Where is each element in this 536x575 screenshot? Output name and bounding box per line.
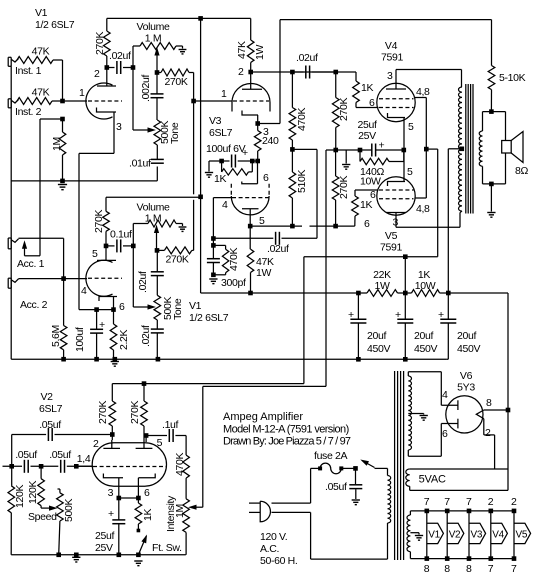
svg-text:270K: 270K (164, 76, 187, 88)
node divider mid (290, 147, 295, 152)
resistor 270K V1b plate (103, 197, 110, 246)
svg-text:10W: 10W (415, 280, 436, 292)
svg-text:1M: 1M (174, 504, 186, 518)
node speaker top (489, 109, 494, 114)
svg-text:Ft. Sw.: Ft. Sw. (152, 542, 182, 554)
svg-text:+: + (438, 309, 444, 321)
svg-text:3: 3 (108, 487, 114, 499)
svg-text:Tone: Tone (169, 122, 181, 144)
wire trem riser (202, 386, 204, 507)
node grid net top (211, 236, 216, 241)
svg-text:A.C.: A.C. (260, 543, 279, 555)
PT primary bottom lead (387, 523, 389, 559)
wire volume1 left (133, 46, 140, 130)
svg-text:V4: V4 (492, 530, 504, 541)
wire V4 grid (356, 107, 379, 109)
svg-text:4,8: 4,8 (416, 86, 430, 98)
capacitor .02uf ch2 (151, 250, 164, 295)
label 47K Inst.2 (32, 87, 50, 99)
OT secondary coil (479, 131, 482, 166)
svg-text:2.2K: 2.2K (118, 329, 130, 350)
svg-text:5: 5 (157, 437, 163, 449)
capacitor .01uf (151, 159, 164, 163)
svg-text:100uf 6V: 100uf 6V (206, 143, 246, 155)
V4 grid dashes (379, 99, 414, 108)
wire mix to V3a grid (194, 100, 232, 102)
label 1,4 V2 (77, 453, 91, 465)
V1a plate (97, 69, 116, 86)
resistor 2.2K (110, 310, 117, 360)
capacitor 25uf V2 (108, 498, 125, 555)
label 270K mix ch1 (164, 76, 187, 88)
wire osc row2 (3, 465, 93, 467)
svg-text:Acc. 2: Acc. 2 (20, 299, 48, 311)
label 470K trem (174, 453, 186, 476)
label Intensity (165, 495, 177, 532)
svg-text:6: 6 (144, 487, 150, 499)
node V3a cathode (255, 121, 260, 126)
svg-text:5.6M: 5.6M (50, 325, 62, 347)
node OT center tap (460, 147, 465, 152)
svg-text:fuse 2A: fuse 2A (314, 450, 348, 462)
capacitor .02uf V3a out (292, 66, 335, 79)
potentiometer 500K speed (57, 489, 64, 555)
resistor 1M grid leak (59, 119, 66, 181)
V5 plate (386, 213, 406, 228)
wire cath gnd stub (345, 150, 347, 164)
capacitor .02uf fb (213, 232, 279, 245)
label pin3 V2 (108, 487, 114, 499)
svg-text:120K: 120K (14, 485, 26, 508)
node row2 a (9, 464, 14, 469)
node V2 k2 (136, 496, 141, 501)
svg-text:7: 7 (488, 563, 494, 575)
V3b cathode (242, 161, 258, 184)
tube V6 5Y3 envelope (446, 396, 483, 433)
svg-text:8: 8 (444, 563, 450, 575)
node grid net 2 (211, 243, 216, 248)
label 25uf 25V out (357, 119, 376, 142)
svg-text:.1uf: .1uf (162, 419, 179, 431)
svg-text:450V: 450V (367, 343, 390, 355)
heater tag V3 (466, 496, 486, 575)
wire CT to B+ (448, 149, 462, 293)
wire 100uf to gnd (209, 161, 222, 172)
wire fuse to switch (341, 467, 355, 469)
label V4 (385, 40, 398, 52)
svg-text:270K: 270K (97, 401, 109, 424)
svg-text:1,4: 1,4 (77, 453, 91, 465)
label 140ohm (360, 166, 384, 178)
svg-text:500K: 500K (63, 499, 75, 522)
V3a grid dashes (233, 100, 269, 102)
PT HV winding (408, 376, 411, 450)
tube V1b envelope (86, 260, 113, 296)
ground below 1M (58, 185, 67, 190)
svg-text:510K: 510K (296, 170, 308, 193)
label pin6 V3b (263, 172, 269, 184)
resistor 470K divider (289, 72, 296, 149)
label pin3 V5 (393, 217, 399, 229)
label 4,8 V5 (416, 203, 430, 215)
label pin3 V4 (387, 70, 393, 82)
svg-text:1/2 6SL7: 1/2 6SL7 (35, 19, 75, 31)
label pin6 V4 (369, 97, 375, 109)
node gnd f1 (356, 357, 361, 362)
tube V3a envelope (232, 84, 270, 112)
wire grid net link (212, 239, 214, 246)
resistor 270K V4 (332, 72, 339, 150)
svg-text:Inst. 1: Inst. 1 (15, 65, 42, 77)
svg-text:1W: 1W (256, 267, 271, 279)
label pin2 V3a (238, 66, 244, 78)
svg-text:2: 2 (488, 496, 494, 508)
label 270K V1b (93, 210, 105, 233)
label .1uf (162, 419, 179, 431)
capacitor .002uf (151, 73, 164, 121)
svg-text:7: 7 (511, 563, 517, 575)
potentiometer 500K Tone ch1 (154, 120, 161, 145)
svg-text:Inst. 2: Inst. 2 (15, 106, 42, 118)
resistor 120K b (38, 466, 45, 508)
label pin3 V1a (116, 121, 122, 133)
svg-text:120K: 120K (27, 481, 39, 504)
node rail 25uf (117, 553, 122, 558)
resistor 510K divider (289, 149, 296, 226)
node cap out ch2 (131, 244, 136, 249)
node plate V1a (105, 65, 110, 70)
label pin3 V3a (263, 126, 269, 138)
wire Acc link tap (40, 119, 63, 256)
label 1M ch2 (145, 213, 161, 225)
capacitor .02uf tone2 (151, 320, 164, 359)
V2 cathodes (103, 474, 155, 499)
node cap out ch1 (131, 65, 136, 70)
node plate5 tap (144, 433, 149, 438)
resistor 22K 1W (367, 290, 398, 297)
svg-text:.01uf: .01uf (129, 158, 151, 170)
potentiometer Volume 1M ch1 (140, 43, 176, 50)
ground FtSw (134, 561, 142, 566)
wire V2 cath bus (119, 497, 139, 499)
node filter1 (356, 291, 361, 296)
resistor 270K V5 (332, 150, 339, 226)
V5 cathode (388, 150, 406, 186)
resistor 470K grid net (213, 245, 228, 274)
heater tag V5 (511, 496, 531, 575)
node gnd tone2 (156, 357, 161, 362)
svg-text:+: + (348, 309, 354, 321)
label 5Y3 (457, 382, 475, 394)
label 7591 V5 (380, 242, 402, 254)
svg-text:4,8: 4,8 (416, 203, 430, 215)
label pin6 V1b (119, 301, 125, 313)
PT HV top lead (408, 372, 441, 406)
svg-text:25V: 25V (95, 542, 113, 554)
svg-text:Ampeg Amplifier: Ampeg Amplifier (223, 411, 303, 423)
riser B+ right (507, 293, 509, 490)
svg-text:V5: V5 (385, 230, 398, 242)
capacitor .05uf b (61, 460, 65, 473)
label 1K V3 (214, 173, 226, 185)
node 1M top (60, 117, 65, 122)
label 1M ch1 (145, 33, 161, 45)
PT core (395, 371, 404, 560)
svg-text:1 M: 1 M (145, 213, 161, 225)
resistor 120K a (8, 466, 15, 555)
capacitor .05uf line (349, 468, 362, 499)
capacitor .1uf (146, 429, 186, 455)
wire divider tap (282, 149, 318, 238)
label 20uf 450V #3 (457, 330, 480, 355)
node V5 in (333, 224, 338, 229)
label fuse 2A (314, 450, 348, 462)
svg-text:.05uf: .05uf (39, 419, 61, 431)
svg-text:Model M-12-A (7591 version): Model M-12-A (7591 version) (223, 424, 349, 436)
label 120V (260, 531, 287, 543)
label 7591 V4 (381, 52, 403, 64)
label pin1 V1a (79, 87, 85, 99)
svg-text:V3: V3 (209, 115, 222, 127)
svg-text:+: + (99, 319, 105, 331)
potentiometer 1M intensity (183, 499, 190, 555)
svg-text:240: 240 (262, 135, 279, 147)
svg-text:.05uf: .05uf (15, 449, 37, 461)
V4 cathode (388, 113, 406, 150)
svg-text:270K: 270K (94, 32, 106, 55)
svg-text:1W: 1W (374, 280, 389, 292)
label pin5 V3b (259, 215, 265, 227)
label .002uf (140, 74, 152, 102)
PT primary winding (388, 476, 391, 524)
label 120K b (27, 481, 39, 504)
tube V5 envelope (377, 177, 415, 215)
svg-text:6: 6 (369, 97, 375, 109)
5VAC winding (406, 469, 410, 486)
svg-text:+: + (395, 309, 401, 321)
PT HV bottom lead (408, 424, 441, 457)
ground cath (342, 165, 350, 170)
label pin2 V1a (94, 68, 100, 80)
V1b grid dashes (88, 277, 122, 279)
label 20uf 450V #2 (414, 330, 437, 355)
node V3a plate (248, 70, 253, 75)
ground heater CT (415, 536, 423, 541)
capacitor 0.1uf ch2 (106, 239, 133, 252)
label Inst. 1 (15, 65, 42, 77)
svg-text:5Y3: 5Y3 (457, 382, 475, 394)
node switch contact (353, 466, 358, 471)
svg-text:5-10K: 5-10K (499, 72, 526, 84)
svg-text:6: 6 (119, 301, 125, 313)
capacitor .05uf top (12, 428, 113, 466)
label V3 (209, 115, 222, 127)
label 1W V3a (254, 45, 266, 60)
svg-text:V3: V3 (471, 530, 483, 541)
label 1K V4 grid (361, 82, 373, 94)
wire ground bus ch1 (11, 180, 157, 182)
label pin2 V6 (485, 427, 491, 439)
AC plug (249, 501, 270, 522)
Acc.1 switch arrow (22, 240, 40, 256)
node cath row b (358, 148, 363, 153)
label 4,8 V4 (416, 86, 430, 98)
wire V3b plate row (250, 225, 355, 227)
wire V3b grid (213, 198, 232, 239)
svg-text:100uf: 100uf (74, 327, 86, 352)
label 6SL7 V2 (39, 403, 63, 415)
node gnd 2.2K (113, 357, 118, 362)
wire Acc.2 jack to V1b grid (19, 278, 88, 280)
svg-text:1/2 6SL7: 1/2 6SL7 (189, 312, 229, 324)
wire screen B+ row (304, 256, 438, 258)
V2 plates (103, 440, 152, 448)
svg-text:V6: V6 (460, 370, 473, 382)
node wiper2 (155, 248, 160, 253)
label 500K speed (63, 499, 75, 522)
label .02uf ch2 (137, 271, 149, 293)
svg-text:7: 7 (424, 496, 430, 508)
wire feedback to cathode (258, 20, 280, 124)
label 10W 1K (415, 280, 436, 292)
node gnd f2 (403, 357, 408, 362)
label 500K Tone ch2 (162, 297, 184, 320)
wire cathode row (326, 149, 404, 151)
tube V2 envelope (92, 443, 166, 486)
svg-text:3: 3 (116, 121, 122, 133)
resistor 270K V1a plate (104, 18, 111, 67)
label Acc. 2 (20, 299, 48, 311)
V1a cathode (97, 108, 117, 154)
V5 grid dashes (379, 190, 414, 199)
label pin1 V3a (221, 88, 227, 100)
node wiper1 (155, 70, 160, 75)
svg-text:3: 3 (387, 70, 393, 82)
label pin6 V6 (442, 428, 448, 440)
node cath row a (333, 148, 338, 153)
input jack Acc.1 (8, 238, 18, 249)
node 100uf top (94, 307, 99, 312)
ground volume2 (179, 227, 187, 231)
label 8 ohm (515, 165, 528, 177)
svg-text:2: 2 (238, 66, 244, 78)
label 47K tail (256, 256, 274, 268)
node V2 k1 (117, 496, 122, 501)
svg-text:5: 5 (408, 121, 414, 133)
wire V5 plate to OT (396, 211, 462, 227)
svg-text:Speed: Speed (28, 511, 57, 523)
node rail gnd (74, 553, 79, 558)
wire B+ rail (201, 292, 508, 294)
ground grid net (209, 279, 217, 284)
label 270K mix ch2 (165, 254, 188, 266)
svg-text:.02uf: .02uf (137, 271, 149, 293)
svg-text:8: 8 (424, 563, 430, 575)
svg-text:8: 8 (466, 563, 472, 575)
svg-text:6: 6 (364, 218, 370, 230)
resistor 47K 1W V3a (247, 18, 254, 72)
svg-text:50-60 H.: 50-60 H. (260, 555, 297, 567)
V6 pin2 wire (484, 419, 495, 469)
V4 screen wire (415, 98, 427, 150)
potentiometer 500K Tone ch2 (154, 295, 161, 320)
heater tag V2 (444, 496, 464, 575)
resistor 47K Inst.1 (17, 57, 53, 64)
wire tone1 .01uf riser (156, 167, 158, 181)
svg-text:+: + (108, 508, 114, 520)
label pin5 V2 (157, 437, 163, 449)
svg-text:7591: 7591 (380, 242, 402, 254)
wire screen to V5 (415, 149, 427, 198)
input jack Inst.2 (8, 99, 18, 108)
power switch (360, 460, 387, 469)
input jack Acc.2 (8, 278, 18, 288)
svg-text:V5: V5 (516, 530, 528, 541)
resistor 270K mix ch2 (157, 101, 194, 254)
resistor 5-10K feedback (488, 20, 495, 112)
wire ground rail (11, 358, 448, 360)
label pin5 V5 (407, 166, 413, 178)
wire V4 in to 1K (336, 72, 356, 81)
speaker (502, 132, 523, 163)
svg-text:25V: 25V (358, 130, 376, 142)
speaker box (483, 112, 506, 184)
label Speed (28, 511, 57, 523)
node V3b plate (248, 224, 253, 229)
ground volume1 (179, 50, 187, 54)
svg-text:5: 5 (92, 248, 98, 260)
label 6 V5 grid (364, 218, 370, 230)
svg-text:10W: 10W (360, 176, 381, 188)
label V1 bottom (189, 300, 202, 312)
Tone2 wiper (133, 304, 156, 309)
5VAC box (410, 469, 508, 490)
svg-text:.02uf: .02uf (267, 243, 289, 255)
ground bottom rail (72, 557, 80, 562)
tube V4 envelope (377, 83, 415, 121)
svg-text:4: 4 (81, 285, 87, 297)
node plate V1b (104, 244, 109, 249)
svg-text:.02uf: .02uf (140, 325, 152, 347)
wire volume2 right to gnd (176, 224, 183, 227)
label 270K V4 (338, 98, 350, 121)
capacitor .02uf ch1 (107, 61, 133, 74)
svg-text:Acc. 1: Acc. 1 (17, 258, 45, 270)
svg-text:.02uf: .02uf (109, 50, 131, 62)
label 100uf V1b (74, 327, 86, 352)
node cath row c (402, 148, 407, 153)
label Inst. 2 (15, 106, 42, 118)
node gnd 5.6M (61, 357, 66, 362)
resistor 1K 10W (412, 290, 440, 297)
tube V1a envelope (86, 83, 113, 119)
label 300pf (221, 277, 246, 289)
svg-text:2: 2 (94, 68, 100, 80)
ground speaker (487, 213, 495, 218)
label pin4 V6 (442, 389, 448, 401)
label 470K grid net (228, 248, 240, 271)
title line2 (223, 424, 349, 436)
V6 filament (476, 410, 484, 419)
label Acc. 1 (17, 258, 45, 270)
heater bottom lead (409, 552, 411, 559)
svg-text:8Ω: 8Ω (515, 165, 528, 177)
wire volume1 right to gnd (176, 46, 183, 49)
label 1W tail (256, 267, 271, 279)
node filter2 (403, 291, 408, 296)
label 0.1uf ch2 (110, 229, 132, 241)
svg-text:270K: 270K (129, 401, 141, 424)
